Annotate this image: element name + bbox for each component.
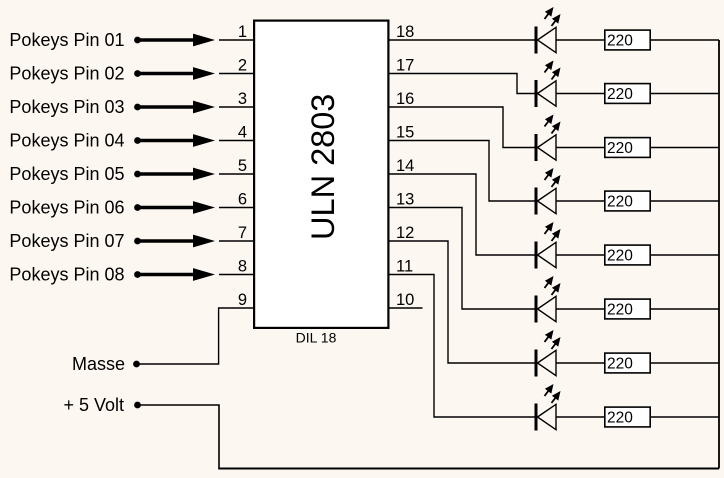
arrow input 6 [138, 201, 216, 214]
arrow input 5 [138, 168, 216, 181]
svg-text:220: 220 [607, 248, 633, 265]
svg-text:Pokeys Pin 03: Pokeys Pin 03 [9, 97, 124, 117]
svg-text:18: 18 [396, 23, 414, 41]
node label Pokeys Pin 03 [9, 97, 124, 117]
svg-text:220: 220 [607, 410, 633, 427]
svg-text:Pokeys Pin 01: Pokeys Pin 01 [9, 30, 124, 50]
svg-text:17: 17 [396, 56, 414, 74]
pin number 15 [396, 123, 414, 141]
pin number 14 [396, 157, 414, 175]
node dot Pokeys Pin 06 [134, 204, 141, 211]
node dot Pokeys Pin 01 [134, 37, 141, 44]
node dot Pokeys Pin 07 [134, 238, 141, 245]
pin number 16 [396, 90, 414, 108]
wire pin 15 to LED D4 [390, 141, 537, 202]
LED D5 [536, 222, 561, 269]
pin number 5 [238, 157, 247, 175]
node dot + 5 Volt [134, 402, 141, 409]
svg-text:14: 14 [396, 157, 414, 175]
wire resistor R2 to +5V bus [651, 93, 719, 95]
svg-text:Pokeys Pin 07: Pokeys Pin 07 [9, 231, 124, 251]
wire LED D8 to resistor R8 [556, 416, 604, 418]
pin number 12 [396, 224, 414, 242]
wire pin 12 to LED D7 [390, 241, 537, 363]
wire input 5 to pin 5 [219, 173, 253, 175]
wire pin 16 to LED D3 [390, 107, 537, 148]
pin number 9 [238, 291, 247, 309]
resistor R1 220 [605, 30, 650, 50]
svg-text:Pokeys Pin 06: Pokeys Pin 06 [9, 198, 124, 218]
LED D7 [536, 330, 561, 377]
node dot Pokeys Pin 03 [134, 104, 141, 111]
wire LED D3 to resistor R3 [556, 147, 604, 149]
svg-text:+ 5 Volt: + 5 Volt [63, 395, 124, 415]
node label Pokeys Pin 08 [9, 265, 124, 285]
wire pin 17 to LED D2 [390, 74, 537, 94]
resistor R8 220 [605, 407, 650, 427]
svg-text:Pokeys Pin 04: Pokeys Pin 04 [9, 131, 124, 151]
svg-text:220: 220 [607, 194, 633, 211]
svg-text:DIL 18: DIL 18 [296, 330, 337, 346]
svg-text:7: 7 [238, 224, 247, 242]
svg-text:12: 12 [396, 224, 414, 242]
svg-text:2: 2 [238, 56, 247, 74]
pin number 7 [238, 224, 247, 242]
svg-text:Pokeys Pin 08: Pokeys Pin 08 [9, 265, 124, 285]
resistor R7 220 [605, 353, 650, 373]
pin number 18 [396, 23, 414, 41]
wire resistor R3 to +5V bus [651, 147, 719, 149]
pin number 2 [238, 56, 247, 74]
wire Masse to pin 9 [138, 308, 254, 364]
arrow input 8 [138, 268, 216, 281]
pin number 17 [396, 56, 414, 74]
node label Pokeys Pin 06 [9, 198, 124, 218]
wire input 1 to pin 1 [219, 39, 253, 41]
LED D1 [536, 7, 561, 54]
svg-text:15: 15 [396, 123, 414, 141]
wire input 4 to pin 4 [219, 140, 253, 142]
pin number 10 [396, 291, 414, 309]
resistor R5 220 [605, 245, 650, 265]
svg-text:4: 4 [238, 123, 247, 141]
svg-text:ULN 2803: ULN 2803 [305, 94, 341, 240]
wire LED D1 to resistor R1 [556, 39, 604, 41]
svg-text:1: 1 [238, 23, 247, 41]
wire resistor R6 to +5V bus [651, 308, 719, 310]
svg-text:16: 16 [396, 90, 414, 108]
node label Pokeys Pin 02 [9, 64, 124, 84]
node label Pokeys Pin 07 [9, 231, 124, 251]
node dot Pokeys Pin 02 [134, 70, 141, 77]
wire +5V right bus vertical [718, 40, 720, 469]
wire + 5 Volt down to bottom bus [138, 405, 220, 469]
wire pin 14 to LED D5 [390, 174, 537, 255]
wire resistor R8 to +5V bus [651, 416, 719, 418]
arrow input 4 [138, 134, 216, 147]
svg-text:220: 220 [607, 356, 633, 373]
arrow input 3 [138, 101, 216, 114]
node label + 5 Volt [63, 395, 124, 415]
svg-text:13: 13 [396, 190, 414, 208]
wire resistor R7 to +5V bus [651, 362, 719, 364]
wire pin 13 to LED D6 [390, 208, 537, 310]
svg-text:10: 10 [396, 291, 414, 309]
IC package label DIL 18 [296, 330, 337, 346]
pin number 8 [238, 257, 247, 275]
svg-text:220: 220 [607, 86, 633, 103]
svg-text:220: 220 [607, 140, 633, 157]
node dot Pokeys Pin 08 [134, 271, 141, 278]
svg-text:220: 220 [607, 33, 633, 50]
node label Pokeys Pin 01 [9, 30, 124, 50]
node label Pokeys Pin 04 [9, 131, 124, 151]
svg-text:220: 220 [607, 302, 633, 319]
wire pin 11 to LED D8 [390, 275, 537, 418]
wire pin 18 to LED D1 [390, 39, 537, 41]
resistor R4 220 [605, 191, 650, 211]
arrow input 1 [138, 34, 216, 47]
node dot Pokeys Pin 05 [134, 171, 141, 178]
node dot Masse [133, 361, 140, 368]
resistor R6 220 [605, 299, 650, 319]
LED D3 [536, 115, 561, 162]
wire LED D5 to resistor R5 [556, 254, 604, 256]
arrow input 7 [138, 235, 216, 248]
arrow input 2 [138, 67, 216, 80]
wire input 6 to pin 6 [219, 207, 253, 209]
wire input 3 to pin 3 [219, 106, 253, 108]
pin number 11 [396, 257, 413, 275]
node dot Pokeys Pin 04 [134, 137, 141, 144]
wire input 8 to pin 8 [219, 274, 253, 276]
pin number 13 [396, 190, 414, 208]
IC label ULN 2803 [305, 94, 341, 240]
pin number 6 [238, 190, 247, 208]
wire input 7 to pin 7 [219, 240, 253, 242]
wire LED D4 to resistor R4 [556, 200, 604, 202]
svg-text:8: 8 [238, 257, 247, 275]
wire input 2 to pin 2 [219, 73, 253, 75]
LED D4 [536, 168, 561, 215]
resistor R3 220 [605, 138, 650, 158]
wire resistor R5 to +5V bus [651, 254, 719, 256]
IC U1 ULN 2803 body [254, 21, 388, 328]
node label Masse [72, 354, 125, 374]
svg-text:Pokeys Pin 05: Pokeys Pin 05 [9, 164, 124, 184]
LED D2 [536, 61, 561, 108]
pin number 4 [238, 123, 247, 141]
node label Pokeys Pin 05 [9, 164, 124, 184]
svg-text:9: 9 [238, 291, 247, 309]
svg-text:5: 5 [238, 157, 247, 175]
svg-text:3: 3 [238, 90, 247, 108]
pin number 3 [238, 90, 247, 108]
wire resistor R4 to +5V bus [651, 200, 719, 202]
resistor R2 220 [605, 84, 650, 104]
wire pin 10 stub [390, 307, 423, 309]
wire LED D6 to resistor R6 [556, 308, 604, 310]
pin number 1 [238, 23, 247, 41]
LED D8 [536, 384, 561, 431]
wire resistor R1 to +5V bus [651, 39, 719, 41]
wire +5V bottom bus [218, 468, 719, 470]
svg-text:Pokeys Pin 02: Pokeys Pin 02 [9, 64, 124, 84]
svg-text:6: 6 [238, 190, 247, 208]
svg-text:11: 11 [396, 257, 413, 275]
wire LED D2 to resistor R2 [556, 93, 604, 95]
LED D6 [536, 276, 561, 323]
wire LED D7 to resistor R7 [556, 362, 604, 364]
svg-text:Masse: Masse [72, 354, 125, 374]
